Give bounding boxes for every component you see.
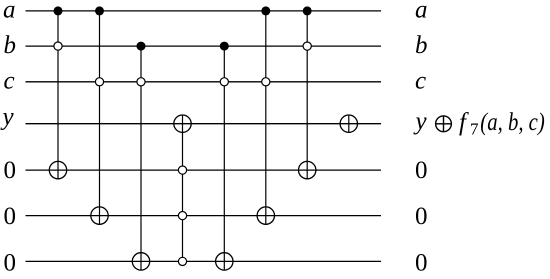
gate G2 target oplus on q6 xyxy=(91,207,108,224)
gate G8 target oplus on y (NOT gate) xyxy=(340,115,357,132)
gate G8 oplus vertical bar xyxy=(348,115,350,132)
gate G2 vertical wire xyxy=(99,11,101,224)
svg-text:a: a xyxy=(3,0,16,23)
wire b xyxy=(26,45,382,47)
gate G7 vertical wire xyxy=(306,11,308,179)
svg-text:0: 0 xyxy=(4,249,17,276)
svg-text:y: y xyxy=(0,104,15,131)
gate G6 control dot on a xyxy=(261,6,270,15)
gate G2 control dot on a xyxy=(95,6,104,15)
svg-text:7: 7 xyxy=(470,120,479,139)
wire c xyxy=(26,81,382,83)
wire y xyxy=(26,123,382,125)
wire q6 (0) xyxy=(26,215,382,217)
svg-text:0: 0 xyxy=(4,157,17,184)
gate G4 vertical wire xyxy=(182,115,184,261)
gate G4 open control on q6 xyxy=(178,212,186,220)
gate G3 target oplus on q7 xyxy=(132,253,149,270)
gate G2 open control on c xyxy=(95,78,103,86)
gate G4 open control on q7 xyxy=(178,257,186,265)
gate G5 target oplus on q7 xyxy=(216,253,233,270)
gate G1 vertical wire xyxy=(57,11,59,179)
oplus symbol in formula xyxy=(436,116,452,132)
svg-text:c: c xyxy=(4,67,15,94)
wire q7 (0) xyxy=(26,260,382,262)
svg-text:b: b xyxy=(415,32,428,59)
gate G3 vertical wire xyxy=(140,46,142,270)
gate G1 target oplus on q5 xyxy=(49,161,66,178)
gate G3 control dot on b xyxy=(137,42,146,51)
svg-text:f: f xyxy=(459,109,469,136)
svg-text:b: b xyxy=(4,32,17,59)
gate G7 target oplus on q5 xyxy=(299,161,316,178)
gate G5 control dot on b xyxy=(220,42,229,51)
gate G7 open control on b xyxy=(303,42,311,50)
svg-text:0: 0 xyxy=(4,203,17,230)
gate G6 open control on c xyxy=(262,78,270,86)
svg-text:0: 0 xyxy=(415,249,428,276)
gate G6 vertical wire xyxy=(265,11,267,224)
svg-text:c: c xyxy=(415,67,426,94)
gate G5 open control on c xyxy=(220,78,228,86)
gate G7 control dot on a xyxy=(303,6,312,15)
gate G5 vertical wire xyxy=(223,46,225,270)
wire a xyxy=(26,10,382,12)
svg-text:(a, b, c): (a, b, c) xyxy=(480,109,545,136)
gate G4 open control on q5 xyxy=(178,166,186,174)
gate G1 open control on b xyxy=(54,42,62,50)
gate G3 open control on c xyxy=(137,78,145,86)
gate G4 target oplus on y xyxy=(174,115,191,132)
gate G6 target oplus on q6 xyxy=(257,207,274,224)
svg-text:0: 0 xyxy=(415,203,428,230)
wire q5 (0) xyxy=(26,169,382,171)
svg-text:0: 0 xyxy=(415,157,428,184)
svg-text:a: a xyxy=(415,0,428,23)
gate G1 control dot on a xyxy=(54,6,63,15)
svg-text:y: y xyxy=(413,108,428,135)
